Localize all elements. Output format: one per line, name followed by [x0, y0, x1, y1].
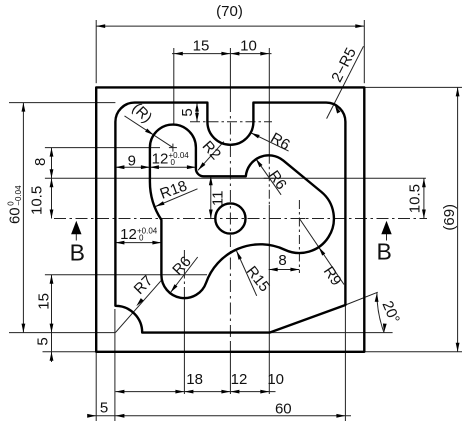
svg-text:9: 9 — [128, 153, 136, 170]
section arrow B left — [75, 233, 77, 241]
leader R9 — [299, 219, 344, 285]
svg-text:18: 18 — [186, 371, 203, 388]
dim 8 bottom line — [269, 269, 300, 271]
extension line blank bottom-right horizontal — [364, 351, 462, 353]
dim 10.5 right arrows — [422, 178, 426, 187]
svg-text:−0.04: −0.04 — [14, 185, 23, 206]
centerline horizontal — [54, 218, 427, 220]
leader R7 — [115, 280, 161, 332]
svg-text:5: 5 — [35, 337, 52, 345]
extension line part right vertical — [344, 305, 346, 421]
svg-text:(70): (70) — [216, 3, 243, 20]
centerline slot horizontal — [190, 121, 272, 123]
dim 5 slot arrows — [195, 103, 199, 112]
svg-text:60: 60 — [7, 207, 24, 224]
svg-text:15: 15 — [35, 293, 52, 310]
extension line blank bottom-left — [43, 351, 97, 353]
svg-text:12: 12 — [152, 151, 169, 168]
dim 8 bottom arrows — [269, 268, 278, 272]
dim 15-10 line — [172, 53, 272, 55]
svg-text:(69): (69) — [441, 204, 458, 231]
svg-text:12: 12 — [120, 226, 137, 243]
dim 5-60 arrows — [87, 414, 96, 418]
svg-text:5: 5 — [179, 108, 196, 116]
extension line blob center — [173, 48, 175, 124]
dim 60 left line — [22, 103, 24, 333]
center mark lobe R6 — [264, 177, 274, 179]
leader R6 slot — [251, 133, 289, 151]
dim text 12+0.04 left — [120, 226, 158, 243]
extension line blank bottom-left vertical — [95, 352, 97, 421]
leader R18 — [156, 189, 198, 207]
centerline slot vertical — [229, 100, 231, 341]
dim 5 left arrow — [50, 352, 54, 361]
dim 5 slot line — [196, 103, 198, 122]
extension line blank top-right — [363, 20, 365, 83]
svg-text:10: 10 — [240, 37, 257, 54]
centerline lobe R9 vertical — [298, 200, 300, 273]
extension line lobe R6 vertical — [268, 155, 270, 205]
extension line lobe left edge — [160, 225, 162, 256]
part outline 60x60 with R5 corners, R7 notch, 20deg chamfer, top slot — [115, 103, 345, 333]
dim 5 left line — [51, 333, 53, 362]
dim 10.5 left arrows — [50, 178, 54, 187]
extension line part bottom-left vertical — [114, 309, 116, 421]
dim 9-12 arrows — [115, 165, 124, 169]
center hole dia 8 — [215, 203, 245, 233]
centerline lobe C4 horizontal — [45, 274, 207, 276]
dim text 12+0.04 top — [152, 151, 190, 168]
dim (69) arrows — [456, 87, 460, 96]
centerline lobe C4 vertical — [183, 250, 185, 299]
angle reference line — [270, 332, 393, 334]
extension line slot center upper — [229, 48, 231, 100]
svg-text:5: 5 — [100, 400, 108, 417]
leader R2 — [198, 142, 224, 171]
svg-text:10: 10 — [267, 371, 284, 388]
dim 10.5 right line — [423, 178, 425, 218]
svg-text:0: 0 — [171, 158, 176, 167]
extension line blob center horizontal — [45, 147, 160, 149]
dim 12 lower line — [115, 242, 161, 244]
dim 9-12 line — [115, 166, 195, 168]
extension line part top-left — [9, 102, 115, 104]
svg-text:8: 8 — [32, 158, 49, 166]
center mark blob — [169, 147, 177, 149]
dim 5-60 line — [88, 415, 351, 417]
leader 2-R5 — [327, 46, 364, 118]
center mark lobe R9 — [293, 218, 305, 220]
dim 18-12-10 arrows — [115, 390, 124, 394]
svg-text:10.5: 10.5 — [406, 184, 423, 213]
svg-text:0: 0 — [139, 234, 144, 243]
svg-text:B: B — [70, 239, 85, 265]
internal cutout profile (R6 lobes, R2, R18, R15, R9) — [150, 125, 334, 299]
svg-text:10.5: 10.5 — [28, 186, 45, 215]
dim 18-12-10 line — [115, 391, 275, 393]
section arrow B right — [386, 233, 388, 241]
dim (70) arrows — [96, 24, 105, 28]
dim (69) line — [457, 87, 459, 351]
leader R6 lobe right — [256, 159, 281, 195]
extension line lobe R6 right — [268, 48, 270, 155]
dim 60 left arrows — [22, 103, 26, 112]
dim 15 left arrows — [50, 275, 54, 284]
angle 20 arc — [377, 293, 384, 333]
dim text 60 -0.04 — [6, 185, 23, 224]
blank outline 70x69 — [96, 87, 364, 351]
dim 12 lower arrows — [115, 241, 124, 245]
svg-text:12: 12 — [231, 371, 248, 388]
leader R15 — [237, 251, 257, 296]
dim 10.5 left line — [51, 178, 53, 218]
svg-text:60: 60 — [275, 401, 292, 418]
dim 8 left arrows — [50, 148, 54, 157]
angle 20 arrows — [383, 324, 387, 333]
extension line part bottom-left — [9, 332, 115, 334]
svg-text:8: 8 — [278, 252, 286, 269]
extension line blank top-left — [95, 20, 97, 83]
dim 15 left line — [51, 275, 53, 333]
leader R6 lobe bottom — [171, 257, 198, 293]
dim 8 left line — [51, 148, 53, 179]
svg-text:15: 15 — [193, 37, 210, 54]
dim 11 arrows — [209, 176, 213, 185]
dim (70) line — [96, 25, 364, 27]
leader (R) — [125, 116, 173, 148]
svg-text:B: B — [377, 239, 392, 265]
dim 15-10 arrows — [174, 52, 183, 56]
chamfer extension line — [345, 292, 377, 305]
reference line y178 — [45, 177, 426, 179]
extension line blank top-right horizontal — [364, 86, 462, 88]
dim 11 line — [210, 176, 212, 218]
